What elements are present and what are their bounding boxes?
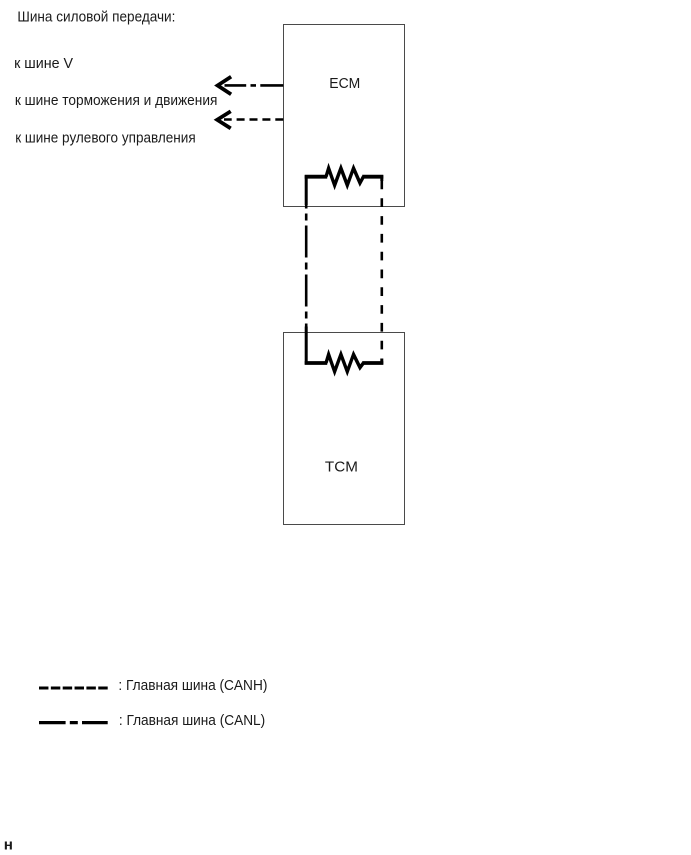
svg-text:TCM: TCM <box>325 459 358 475</box>
svg-text:к шине V: к шине V <box>14 56 73 72</box>
svg-text:: Главная шина (CANH): : Главная шина (CANH) <box>118 678 267 694</box>
svg-text:к шине торможения и движения: к шине торможения и движения <box>15 93 218 109</box>
svg-text:н: н <box>4 836 13 853</box>
svg-text:ECM: ECM <box>329 76 360 92</box>
svg-text:к шине рулевого управления: к шине рулевого управления <box>15 131 196 147</box>
svg-text:Шина силовой передачи:: Шина силовой передачи: <box>17 10 175 26</box>
svg-text:: Главная шина (CANL): : Главная шина (CANL) <box>119 713 265 729</box>
